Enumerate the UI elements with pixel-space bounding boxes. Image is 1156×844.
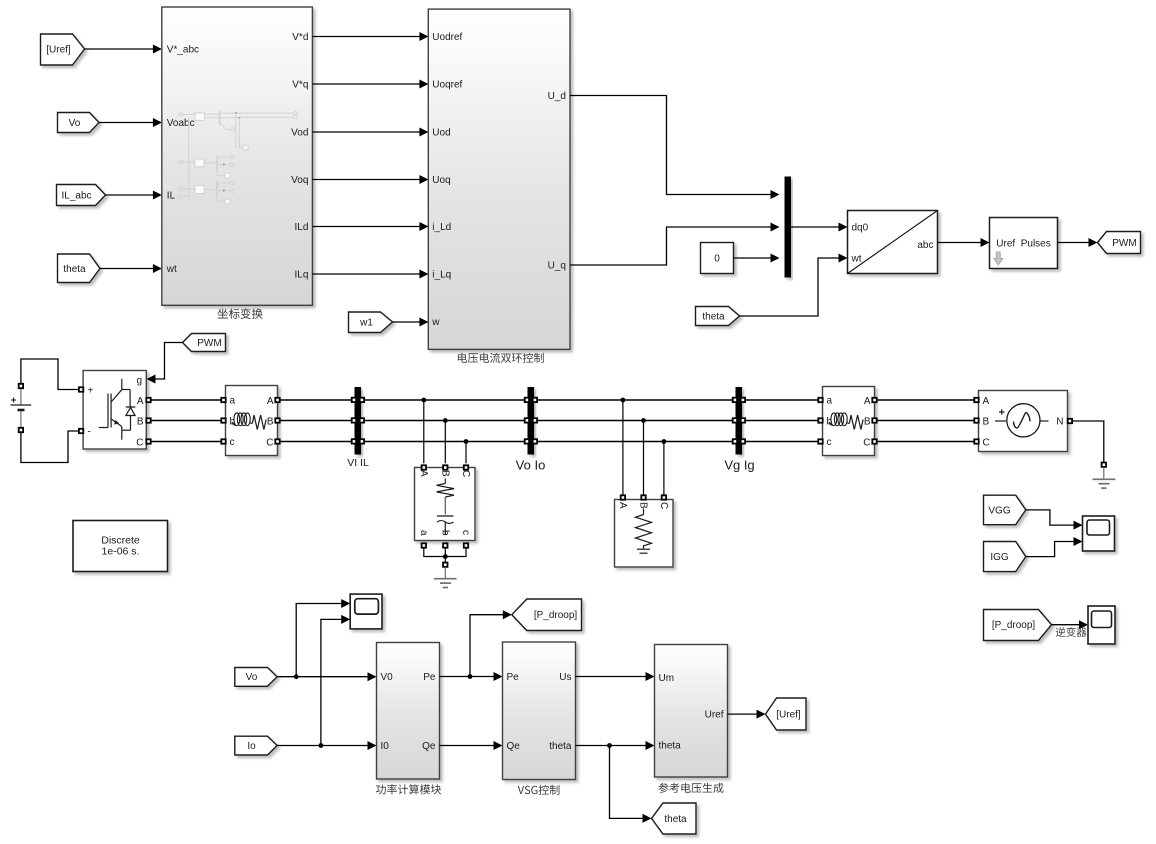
mux bar (785, 177, 792, 278)
wire V*d to Uodref (312, 32, 428, 41)
wire battery plus to inverter (21, 359, 79, 390)
from tag IL_abc (57, 185, 106, 206)
svg-text:a: a (827, 396, 833, 407)
svg-text:theta: theta (549, 741, 572, 752)
junction node load tap A (621, 398, 626, 403)
from tag theta (dq0) (696, 307, 740, 326)
discrete solver block (73, 521, 168, 572)
wire V*q to Uoqref (312, 80, 428, 89)
svg-text:B: B (267, 417, 274, 428)
svg-text:theta: theta (659, 741, 682, 752)
svg-text:wt: wt (851, 254, 862, 265)
svg-text:Uoq: Uoq (432, 175, 450, 186)
scope label 逆变器 (1056, 627, 1087, 637)
svg-text:U_d: U_d (548, 91, 566, 102)
svg-text:Uref: Uref (705, 710, 724, 721)
svg-text:C: C (136, 438, 143, 449)
svg-text:theta: theta (664, 814, 687, 825)
svg-text:c: c (827, 437, 832, 448)
wire phase C RL2 to source (877, 441, 975, 443)
svg-text:theta: theta (702, 312, 725, 323)
subsystem block 电压电流双环控制 (428, 9, 570, 349)
svg-text:Uod: Uod (432, 128, 450, 139)
block label 参考电压生成 (658, 783, 723, 793)
wire phase C VgIg to RL2 (745, 441, 817, 443)
svg-text:a: a (230, 396, 236, 407)
svg-text:wt: wt (166, 264, 177, 275)
svg-text:A: A (983, 396, 990, 407)
junction node filter tap C (464, 439, 469, 444)
svg-text:[Uref]: [Uref] (776, 710, 801, 721)
subsystem block 参考电压生成 (655, 645, 728, 778)
wire phase A VIIL to VoIo bar (364, 399, 525, 401)
block label 坐标变换 (217, 308, 262, 319)
svg-text:abc: abc (917, 240, 933, 251)
label Vo Io (516, 458, 546, 473)
transform block dq0 to abc (848, 211, 938, 274)
wire IL_abc to IL (106, 191, 162, 200)
measurement bar Vg Ig (733, 387, 745, 455)
label VI IL (347, 457, 369, 469)
wire phase B RL2 to source (877, 420, 975, 422)
block label 电压电流双环控制 (458, 353, 544, 363)
svg-text:ILq: ILq (294, 270, 308, 281)
RL2 inductor-resistor icon (829, 413, 863, 430)
scope (Vo Io monitor) (350, 594, 382, 629)
svg-text:Pe: Pe (507, 672, 520, 683)
label Vg Ig (724, 458, 754, 473)
wire load tap B down (643, 421, 645, 496)
from tag VGG (984, 495, 1026, 525)
svg-text:Uref Pulses: Uref Pulses (996, 239, 1050, 250)
svg-text:C: C (658, 502, 669, 509)
junction node load tap C (662, 439, 667, 444)
svg-text:U_q: U_q (548, 261, 566, 272)
wire ILd to i_Ld (312, 222, 428, 231)
wire PWM to gate g (147, 343, 183, 384)
svg-text:Vod: Vod (291, 128, 308, 139)
from tag IGG (984, 542, 1026, 572)
wire phase A RL1 to VIIL bar (280, 399, 353, 401)
svg-text:w1: w1 (359, 318, 373, 329)
ground symbol (source) (1093, 467, 1116, 488)
inverter block (IGBT bridge) (83, 371, 146, 450)
goto tag [P_droop] (VSG) (512, 599, 582, 631)
svg-text:c: c (460, 530, 471, 535)
svg-text:C: C (460, 470, 471, 477)
svg-text:VI IL: VI IL (347, 457, 369, 469)
svg-text:Qe: Qe (422, 741, 436, 752)
wire tap A down to filter (423, 400, 425, 463)
inverter port B (146, 418, 150, 422)
wire phase B inverter to RL1 (151, 420, 222, 422)
block label 功率计算模块 (376, 784, 441, 794)
svg-text:Vg Ig: Vg Ig (724, 458, 754, 473)
three-phase programmable voltage source (979, 391, 1068, 452)
inverter port C (146, 439, 150, 443)
svg-text:i_Lq: i_Lq (432, 270, 451, 281)
ground port square (source) (1102, 463, 1106, 467)
wire theta to wt of dq0 (740, 254, 848, 317)
wire load tap C down (663, 442, 665, 496)
svg-text:Io: Io (247, 741, 256, 752)
svg-text:dq0: dq0 (852, 223, 869, 234)
filter ports top (422, 465, 469, 469)
wire abc to Uref Pulses (938, 238, 990, 247)
from tag theta (58, 254, 101, 283)
wire load tap A down (622, 400, 624, 495)
svg-text:A: A (267, 396, 274, 407)
from tag [P_droop] (scope) (984, 610, 1052, 641)
from tag [Uref] (41, 34, 85, 65)
svg-text:C: C (983, 438, 990, 449)
wire theta to wt (100, 264, 162, 273)
svg-text:PWM: PWM (1112, 238, 1136, 249)
svg-text:Um: Um (659, 673, 675, 684)
svg-text:Vo: Vo (246, 672, 258, 683)
subsystem block VSG控制 (503, 642, 576, 780)
svg-text:V*d: V*d (292, 32, 308, 43)
from tag PWM (gate) (183, 334, 226, 352)
svg-text:theta: theta (63, 264, 86, 275)
svg-text:IL_abc: IL_abc (61, 191, 91, 202)
wire phase B VIIL to VoIo bar (364, 420, 525, 422)
svg-text:IL: IL (167, 191, 176, 202)
svg-text:PWM: PWM (197, 338, 221, 349)
wire phase C VIIL to VoIo bar (364, 441, 525, 443)
wire ILq to i_Lq (312, 270, 428, 279)
wire Us to Um (576, 672, 655, 681)
svg-text:A: A (418, 470, 429, 477)
svg-text:a: a (418, 530, 429, 536)
wire phase A VgIg to RL2 (745, 399, 817, 401)
from tag Io (bottom) (235, 736, 277, 755)
svg-text:[P_droop]: [P_droop] (534, 610, 578, 621)
junction node load tap B (641, 418, 646, 423)
wires filter bottom to neutral node (424, 548, 466, 563)
svg-text:A: A (617, 502, 628, 509)
svg-text:V0: V0 (381, 672, 394, 683)
svg-text:1e-06 s.: 1e-06 s. (102, 546, 140, 558)
constant block 0 (701, 243, 734, 274)
junction node neutral (443, 554, 448, 559)
source ports (974, 398, 1072, 444)
DC battery source (11, 388, 32, 428)
wire U_d to mux input 1 (570, 96, 780, 200)
svg-text:Vo Io: Vo Io (516, 458, 546, 473)
scope VGG IGG (1083, 516, 1115, 551)
PWM generator block Uref Pulses (990, 218, 1058, 269)
svg-text:VGG: VGG (988, 505, 1010, 516)
svg-text:Vo: Vo (69, 118, 81, 129)
svg-text:V*_abc: V*_abc (167, 45, 199, 56)
svg-text:c: c (230, 437, 235, 448)
svg-text:Voabc: Voabc (167, 118, 195, 129)
wire phase C RL1 to VIIL bar (280, 441, 353, 443)
svg-text:B: B (137, 417, 144, 428)
RL1 ports (221, 398, 279, 444)
svg-text:C: C (863, 438, 870, 449)
svg-text:Uoqref: Uoqref (432, 80, 462, 91)
svg-text:ILd: ILd (294, 222, 308, 233)
wire w1 to w (393, 318, 429, 327)
three-phase RC filter block (415, 468, 476, 541)
svg-text:Voq: Voq (291, 175, 308, 186)
svg-text:g: g (137, 376, 143, 387)
battery top port (19, 384, 23, 388)
wire Io to I0 and scope (277, 615, 376, 750)
svg-text:N: N (1056, 417, 1063, 428)
RL1 inductor-resistor icon (232, 413, 266, 430)
svg-text:0: 0 (714, 254, 720, 265)
svg-text:[Uref]: [Uref] (46, 45, 71, 56)
subsystem block 坐标变换 (162, 7, 313, 305)
svg-text:B: B (638, 502, 649, 509)
wire phase C VoIo to VgIg (537, 441, 733, 443)
wire P_droop to scope (1052, 620, 1089, 629)
scope P_droop (1088, 606, 1115, 644)
three-phase RLC load block (615, 500, 674, 568)
ground symbol (filter) (434, 567, 457, 588)
subsystem block 功率计算模块 (377, 643, 440, 780)
wire Uref to V*_abc (85, 45, 162, 54)
wire VGG to scope (1026, 510, 1083, 530)
wire phase A RL2 to source (877, 399, 975, 401)
wire phase A inverter to RL1 (151, 399, 222, 401)
measurement bar Vo Io (525, 387, 537, 455)
goto tag PWM (top right) (1098, 232, 1141, 254)
svg-text:A: A (137, 396, 144, 407)
goto tag theta (bottom) (652, 803, 697, 834)
svg-text:Us: Us (559, 672, 571, 683)
wire Vod to Uod (312, 128, 428, 137)
svg-text:B: B (983, 417, 990, 428)
inverter minus port (79, 429, 83, 433)
wire Qe to Qe (440, 741, 503, 750)
junction node filter tap A (421, 398, 426, 403)
wire 0 to mux input 3 (734, 254, 780, 263)
wire IGG to scope (1026, 537, 1083, 557)
inverter port A (146, 398, 150, 402)
RL2 ports (818, 398, 876, 444)
wire Uref to [Uref] tag (728, 710, 766, 719)
block label VSG控制 (518, 785, 560, 795)
ground port square (443, 563, 447, 567)
measurement bar VI IL (352, 387, 364, 455)
svg-text:i_Ld: i_Ld (432, 222, 451, 233)
svg-text:+: + (88, 386, 94, 397)
junction node filter tap B (443, 418, 448, 423)
wire phase A VoIo to VgIg (537, 399, 733, 401)
wire U_q to mux input 2 (570, 223, 780, 266)
svg-text:Uodref: Uodref (432, 32, 462, 43)
svg-text:Pe: Pe (423, 672, 436, 683)
wire phase B RL1 to VIIL bar (280, 420, 353, 422)
load ports top (621, 495, 666, 499)
wire Vo to Voabc (99, 118, 162, 127)
wire tap C down to filter (465, 442, 467, 464)
wire Uref Pulses to PWM goto (1058, 238, 1098, 247)
from tag Vo (bottom) (235, 668, 277, 687)
filter RC icon (437, 479, 455, 535)
faint content preview inside 坐标变换 (178, 110, 298, 204)
wire Voq to Uoq (312, 175, 428, 184)
filter ports bottom (422, 543, 469, 547)
svg-text:C: C (266, 438, 273, 449)
from tag w1 (349, 312, 393, 333)
wire mux to dq0 (791, 223, 848, 232)
svg-text:A: A (864, 396, 871, 407)
wire battery minus to inverter (21, 431, 79, 463)
wire Pe to Pe with P_droop branch (440, 610, 512, 681)
load resistor icon (636, 509, 652, 554)
svg-text:[P_droop]: [P_droop] (992, 620, 1036, 631)
wire N to ground (1072, 421, 1104, 463)
IGBT and diode icon (99, 379, 136, 440)
wire tap B down to filter (444, 421, 446, 464)
svg-text:I0: I0 (381, 741, 390, 752)
goto tag [Uref] (766, 698, 807, 730)
svg-text:Qe: Qe (507, 741, 521, 752)
battery bottom port (19, 428, 23, 432)
svg-text:B: B (439, 470, 450, 477)
three-phase RL branch block 2 (823, 387, 875, 456)
svg-text:-: - (88, 427, 91, 438)
wire phase B VoIo to VgIg (537, 420, 733, 422)
wire theta to theta with branch to tag (576, 741, 655, 823)
wire phase B VgIg to RL2 (745, 420, 817, 422)
from tag Vo (58, 113, 100, 133)
three-phase RL branch block 1 (226, 386, 278, 456)
svg-text:IGG: IGG (990, 552, 1009, 563)
svg-text:B: B (864, 417, 871, 428)
wire phase C inverter to RL1 (151, 441, 222, 443)
wire Vo to V0 and scope (277, 599, 376, 681)
svg-text:w: w (431, 317, 440, 328)
svg-text:V*q: V*q (292, 80, 308, 91)
inverter plus port (79, 387, 83, 391)
